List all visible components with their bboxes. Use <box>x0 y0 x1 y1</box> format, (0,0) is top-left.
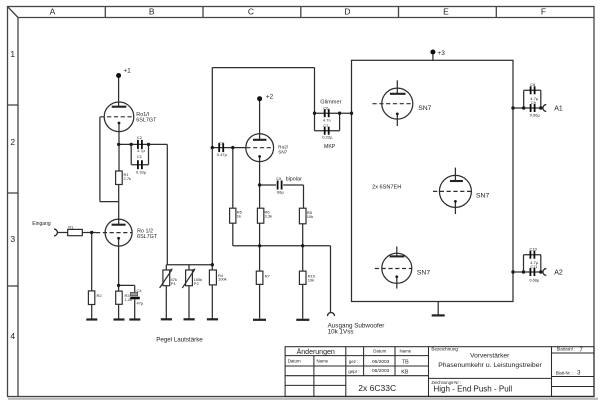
svg-text:3: 3 <box>10 234 15 244</box>
svg-text:2: 2 <box>10 137 15 147</box>
svg-text:R7: R7 <box>265 274 271 279</box>
svg-text:2x 6C33C: 2x 6C33C <box>358 383 396 393</box>
svg-text:SN7: SN7 <box>476 192 489 199</box>
svg-text:Bezeichnung: Bezeichnung <box>431 346 458 351</box>
svg-text:0.56µ: 0.56µ <box>530 112 541 117</box>
svg-text:Blatt-Nr. :: Blatt-Nr. : <box>556 370 573 375</box>
svg-text:R2: R2 <box>97 293 103 298</box>
svg-text:Eingang: Eingang <box>32 221 51 227</box>
svg-text:100k: 100k <box>218 277 227 282</box>
svg-text:Datum: Datum <box>373 349 386 354</box>
svg-text:B: B <box>149 7 155 17</box>
svg-text:A1: A1 <box>554 106 563 113</box>
svg-text:C8: C8 <box>530 82 536 87</box>
svg-text:+2: +2 <box>266 94 274 101</box>
svg-text:10k: 10k <box>308 278 314 283</box>
svg-text:Phasenumkehr u. Leistungstreib: Phasenumkehr u. Leistungstreiber <box>438 362 542 369</box>
svg-text:0.68µ: 0.68µ <box>529 277 540 282</box>
svg-text:6SL7GT: 6SL7GT <box>136 118 157 124</box>
svg-text:4: 4 <box>10 331 15 341</box>
svg-text:C4: C4 <box>137 288 143 293</box>
svg-text:0.47µ: 0.47µ <box>217 152 228 157</box>
svg-text:A: A <box>50 7 56 17</box>
svg-text:Datum: Datum <box>288 359 301 364</box>
svg-text:Ro2/: Ro2/ <box>278 144 288 149</box>
svg-text:C9: C9 <box>531 100 537 105</box>
svg-text:1k: 1k <box>237 214 241 219</box>
svg-text:KB: KB <box>401 369 409 375</box>
svg-text:0.22µ: 0.22µ <box>322 135 333 140</box>
svg-text:Glimmer: Glimmer <box>320 99 341 105</box>
svg-text:MKP: MKP <box>324 144 336 150</box>
svg-text:E: E <box>443 7 449 17</box>
svg-text:SN7: SN7 <box>418 105 431 112</box>
svg-text:C: C <box>248 7 254 17</box>
svg-text:68µ: 68µ <box>277 190 284 195</box>
svg-text:High - End Push - Pull: High - End Push - Pull <box>434 384 513 393</box>
svg-text:R1: R1 <box>68 224 74 229</box>
svg-text:C3: C3 <box>219 140 225 145</box>
svg-text:P1: P1 <box>171 281 177 286</box>
svg-text:Pegel Lautstärke: Pegel Lautstärke <box>156 337 203 344</box>
svg-text:+1: +1 <box>123 67 131 74</box>
svg-text:2x 6SN7EH: 2x 6SN7EH <box>372 185 401 191</box>
svg-text:Blattzahl :: Blattzahl : <box>557 346 575 351</box>
svg-text:C11: C11 <box>530 264 538 269</box>
svg-text:TB: TB <box>402 359 409 365</box>
svg-text:D: D <box>344 7 350 17</box>
svg-text:A2: A2 <box>554 269 563 276</box>
svg-text:+3: +3 <box>438 50 446 57</box>
svg-text:C7: C7 <box>323 123 329 128</box>
svg-text:C6: C6 <box>323 106 329 111</box>
svg-text:gez :: gez : <box>349 359 359 364</box>
svg-text:C1: C1 <box>137 154 143 159</box>
svg-text:P2: P2 <box>194 281 200 286</box>
svg-text:6SL7GT: 6SL7GT <box>137 234 158 240</box>
svg-text:3,3k: 3,3k <box>265 214 273 219</box>
svg-text:1: 1 <box>10 49 15 59</box>
svg-text:1,2k: 1,2k <box>125 297 133 302</box>
svg-text:Vorverstärker: Vorverstärker <box>470 352 510 359</box>
svg-text:06/2003: 06/2003 <box>372 359 390 365</box>
svg-text:10k 1Vss: 10k 1Vss <box>328 328 354 335</box>
svg-text:Name: Name <box>400 349 412 354</box>
svg-text:SN7: SN7 <box>417 269 430 276</box>
svg-text:0.33µ: 0.33µ <box>136 169 147 174</box>
svg-text:06/2003: 06/2003 <box>372 368 390 374</box>
svg-text:gepr :: gepr : <box>348 369 359 374</box>
svg-text:SN7: SN7 <box>278 150 287 155</box>
svg-text:C10: C10 <box>530 247 538 252</box>
svg-text:F: F <box>541 7 546 17</box>
svg-text:4.7µ: 4.7µ <box>137 148 146 153</box>
svg-text:47µ: 47µ <box>137 300 144 305</box>
svg-text:10k: 10k <box>307 214 313 219</box>
svg-text:bipolar: bipolar <box>286 177 302 183</box>
svg-text:4.7n: 4.7n <box>323 118 331 123</box>
svg-text:C2: C2 <box>137 135 143 140</box>
svg-text:Änderungen: Änderungen <box>297 348 335 356</box>
svg-text:C5: C5 <box>276 176 282 181</box>
svg-text:2.7k: 2.7k <box>124 176 132 181</box>
svg-text:Name: Name <box>317 359 329 364</box>
